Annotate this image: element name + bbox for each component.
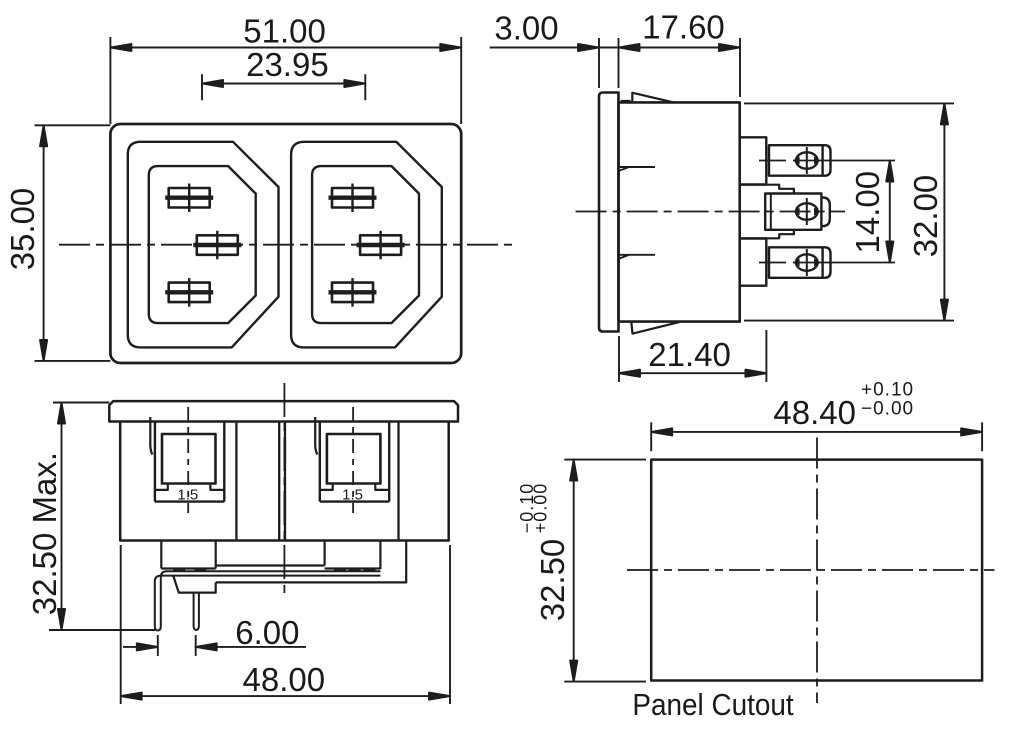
under-body bay bottoms (161, 566, 380, 569)
svg-text:−0.00: −0.00 (861, 399, 914, 420)
svg-text:6.00: 6.00 (235, 614, 299, 651)
socket S1 inner contour (149, 166, 256, 323)
terminal T2 hole (796, 203, 818, 219)
svg-text:1.5: 1.5 (177, 487, 198, 504)
bottom view flange (109, 401, 458, 421)
dimension 21.40 (619, 330, 766, 382)
svg-text:32.50 Max.: 32.50 Max. (26, 452, 63, 615)
svg-text:35.00: 35.00 (4, 188, 41, 271)
socket S1 pin top (165, 184, 213, 213)
dimension 48.00 (121, 545, 450, 704)
terminal T1 hole vertical centerline (806, 147, 808, 174)
fuse unit F1 centerline (187, 407, 189, 513)
pin P2 tip (194, 626, 199, 631)
pin P1 tip (155, 626, 161, 631)
bottom view body outline (120, 422, 449, 541)
dimension 35.00 (35, 125, 111, 361)
socket S2 pin middle (357, 231, 405, 259)
terminal tab tips right (334, 568, 376, 571)
fuse unit F2 ledge (320, 484, 389, 490)
terminal T1 blade (769, 145, 831, 176)
svg-text:23.95: 23.95 (246, 46, 329, 83)
fuse unit F1 outer walls (155, 422, 224, 502)
fuse unit F1 latch mark (150, 417, 152, 455)
dimension 23.95 (202, 74, 365, 100)
front view body outline (110, 124, 461, 363)
fuse unit F1 cavity (162, 434, 216, 484)
terminal T1 (top) step block (740, 137, 767, 184)
dimension 6.00 (123, 635, 306, 656)
svg-text:3.00: 3.00 (494, 10, 558, 47)
svg-text:17.60: 17.60 (642, 9, 725, 46)
terminal T2 housing (765, 194, 830, 230)
bottom view inner wall right (397, 422, 399, 541)
socket S2 inner contour (312, 166, 419, 323)
terminal T1 hole (796, 152, 818, 168)
fuse unit F2 outer walls (320, 422, 389, 502)
svg-text:1.5: 1.5 (342, 487, 363, 504)
svg-text:+0.00: +0.00 (531, 483, 551, 534)
terminal T3 blade (769, 247, 831, 277)
front view horizontal centerline (59, 244, 514, 246)
socket S2 outer contour (291, 142, 442, 348)
svg-text:48.40: 48.40 (773, 394, 856, 431)
terminal T3 hole (796, 254, 818, 270)
under-body bay walls (161, 541, 380, 570)
svg-text:32.00: 32.00 (907, 175, 944, 258)
dimension 32.50 Max. (49, 403, 155, 631)
terminal T2 hole vertical centerline (806, 198, 808, 225)
svg-text:48.00: 48.00 (243, 661, 326, 698)
dimension 3.00 (490, 38, 619, 88)
bottom view vertical centerline (283, 383, 285, 598)
socket S1 pin middle (193, 231, 241, 259)
svg-text:+0.10: +0.10 (861, 379, 914, 400)
panel cutout rectangle (651, 460, 982, 681)
svg-text:21.40: 21.40 (648, 336, 731, 373)
dimension 32.50 cutout (564, 460, 646, 682)
terminal T3 centerline / 14.00 extension (759, 262, 895, 264)
solder lug (173, 576, 216, 593)
dimension 48.40 (651, 422, 982, 451)
under-body right step (216, 541, 407, 583)
terminal T3 hole vertical centerline (806, 249, 808, 276)
fuse unit F2 latch mark (315, 417, 317, 455)
socket S1 pin bottom (165, 278, 213, 307)
dimension 17.60 (619, 38, 741, 97)
bottom view inner wall left (235, 422, 237, 541)
terminal T1 centerline / 14.00 extension (759, 160, 895, 162)
socket S2 pin bottom (329, 278, 377, 307)
terminal T3 (bottom) step block (740, 239, 767, 286)
terminal T2 (middle) prong top (740, 185, 794, 194)
panel cutout vertical centerline (816, 438, 818, 704)
pin P2 (194, 593, 199, 626)
fuse unit F2 cavity (327, 434, 381, 484)
socket S2 pin top (329, 184, 377, 213)
svg-text:32.50: 32.50 (534, 539, 571, 622)
svg-text:51.00: 51.00 (243, 13, 326, 50)
dimension 51.00 (110, 37, 461, 124)
svg-text:14.00: 14.00 (849, 171, 886, 254)
side view bottom latch wedge (631, 322, 681, 334)
dimension 14.00 (886, 161, 893, 263)
socket S1 outer contour (128, 142, 279, 348)
fuse unit F2 centerline (352, 407, 354, 513)
terminal tab tips left (173, 568, 206, 571)
terminal T2 prong bottom (740, 230, 794, 239)
dimension 32.00 (744, 103, 954, 320)
side view top latch wedge (621, 93, 674, 103)
ground strip wire (161, 571, 381, 626)
panel cutout horizontal centerline (627, 569, 995, 571)
side view horizontal centerline (576, 211, 845, 213)
fuse unit F1 ledge (155, 484, 224, 490)
side view parting mark upper (619, 167, 656, 171)
side view parting mark lower (619, 255, 656, 259)
side view body (619, 102, 740, 321)
svg-text:Panel Cutout: Panel Cutout (632, 688, 793, 723)
side view flange (599, 93, 619, 332)
bottom view center divider walls (279, 422, 285, 541)
